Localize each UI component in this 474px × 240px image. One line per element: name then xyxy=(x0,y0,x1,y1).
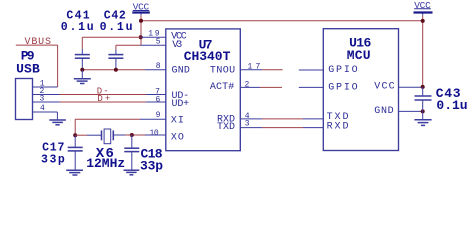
svg-text:GPIO: GPIO xyxy=(328,65,358,76)
junction at VCC left / pin19 rail xyxy=(139,35,143,39)
wire VCC right stem (red vertical x=422.7) xyxy=(422,14,424,16)
pin 1 wire (USB) xyxy=(33,86,58,88)
svg-text:33p: 33p xyxy=(140,158,163,173)
wire GND (U16) xyxy=(399,110,423,112)
svg-text:33p: 33p xyxy=(41,153,65,166)
svg-text:TNOU: TNOU xyxy=(210,66,235,77)
wire VCC left stem (red vertical x=141) xyxy=(140,14,142,16)
junction C43 top xyxy=(421,85,425,89)
svg-text:3: 3 xyxy=(40,95,45,104)
capacitor C18 xyxy=(124,135,139,170)
wire GPIO stub 1 (MCU) xyxy=(299,69,324,71)
wire crystal right xyxy=(125,134,132,136)
crystal X6 xyxy=(87,129,125,144)
wire XI (pin 9) xyxy=(75,119,166,135)
wire VBUS vertical xyxy=(57,45,59,87)
junction C41 bottom xyxy=(80,68,84,72)
wire GPIO stub 2 (MCU) xyxy=(299,86,324,88)
ground (C41/C42) xyxy=(74,70,91,84)
junction at VCC right / top rail xyxy=(421,19,425,23)
pin 2 wire (USB, D-) xyxy=(33,94,166,96)
svg-text:3: 3 xyxy=(245,119,250,128)
svg-text:5: 5 xyxy=(156,38,161,47)
svg-text:CH340T: CH340T xyxy=(184,49,231,64)
svg-text:VBUS: VBUS xyxy=(25,37,52,48)
wire TNOW (pin 17) xyxy=(240,69,282,71)
svg-text:UD+: UD+ xyxy=(172,99,190,110)
svg-text:VCC: VCC xyxy=(374,81,394,92)
wire crystal left xyxy=(75,134,87,136)
wire VBUS horizontal xyxy=(16,44,58,46)
svg-text:XI: XI xyxy=(171,116,184,127)
junction crystal left xyxy=(73,133,77,137)
svg-text:XO: XO xyxy=(171,132,184,143)
capacitor C43 xyxy=(415,87,432,112)
IC U7 CH340T body xyxy=(166,29,241,151)
junction C42 bottom xyxy=(114,68,118,72)
ground (C18) xyxy=(124,170,140,175)
wire XO (pin 10) xyxy=(132,134,166,136)
svg-text:RXD: RXD xyxy=(327,121,349,132)
wire pin19 stub blue xyxy=(141,36,166,38)
svg-text:6: 6 xyxy=(156,96,161,105)
svg-text:12MHz: 12MHz xyxy=(86,156,125,171)
svg-text:0.1u: 0.1u xyxy=(436,98,467,113)
ground (USB shell) xyxy=(49,120,66,125)
svg-text:ACT#: ACT# xyxy=(210,82,234,93)
IC U16 MCU body xyxy=(323,29,398,151)
wire ACT# (pin 2) xyxy=(240,86,282,88)
wire RXD-TXD (pin 4) xyxy=(240,118,323,120)
ground (C17) xyxy=(66,170,83,175)
connector P9 USB body xyxy=(16,79,33,120)
wire GND rail (y=69.7) xyxy=(82,69,166,71)
pin 3 wire (USB, D+) xyxy=(33,101,166,103)
pin 4 wire (USB) xyxy=(33,112,58,120)
wire pin5 stub blue xyxy=(141,44,166,46)
power symbol VCC (left) xyxy=(132,2,150,13)
svg-text:GND: GND xyxy=(172,66,190,77)
svg-text:4: 4 xyxy=(40,104,45,113)
wire C42 to pin5 row (y=45.2) xyxy=(116,44,141,46)
svg-text:USB: USB xyxy=(16,61,40,76)
svg-text:0.1u: 0.1u xyxy=(100,21,133,34)
capacitor C41 xyxy=(75,37,90,69)
svg-text:V3: V3 xyxy=(172,40,182,51)
wire VCC (U16) xyxy=(399,86,423,88)
capacitor C17 xyxy=(68,135,83,170)
wire rail C41 to VCC junction (y=37.2) xyxy=(82,36,140,38)
svg-text:17: 17 xyxy=(248,63,261,72)
svg-text:MCU: MCU xyxy=(347,48,371,63)
svg-text:0.1u: 0.1u xyxy=(61,21,94,34)
svg-text:2: 2 xyxy=(245,81,250,90)
capacitor C42 xyxy=(108,45,123,69)
svg-text:10: 10 xyxy=(150,129,159,138)
wire VCC top rail xyxy=(141,20,423,22)
power symbol VCC (right) xyxy=(414,0,433,13)
ground (C43/U16) xyxy=(414,111,431,125)
svg-text:GPIO: GPIO xyxy=(328,83,358,94)
wire TXD-RXD (pin 3) xyxy=(240,127,323,129)
svg-text:8: 8 xyxy=(156,62,161,71)
junction at VCC left / top rail xyxy=(139,19,143,23)
junction crystal right xyxy=(130,133,134,137)
junction C43 bottom xyxy=(421,109,425,113)
svg-text:TXD: TXD xyxy=(217,122,235,133)
svg-text:GND: GND xyxy=(374,106,393,117)
